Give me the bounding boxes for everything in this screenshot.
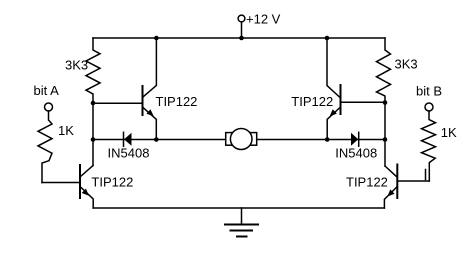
- stray segment near R4 lead: [425, 170, 427, 180]
- svg-text:TIP122: TIP122: [346, 175, 388, 190]
- ground: [225, 208, 258, 237]
- +12V terminal circle: [238, 15, 245, 22]
- svg-text:bit A: bit A: [34, 83, 60, 98]
- wire center left (rail to motor): [93, 139, 226, 141]
- wire left rail (R1 bottom to diode node): [92, 103, 94, 166]
- motor M1: [226, 129, 257, 150]
- node A dot (R1 / Q1 base): [91, 101, 96, 106]
- svg-text:TIP122: TIP122: [156, 94, 198, 109]
- transistor Q3 TIP122 lower-left: [80, 165, 93, 208]
- svg-text:IN5408: IN5408: [335, 145, 377, 160]
- transistor Q1 TIP122 upper-left: [93, 38, 156, 140]
- node dot right rail / D2 cathode wire: [383, 137, 388, 142]
- transistor Q2 TIP122 upper-right: [327, 38, 385, 140]
- svg-text:bit B: bit B: [416, 84, 442, 99]
- wire +12V stub: [241, 22, 243, 38]
- wire bit A to Q3 base: [42, 182, 80, 184]
- wire top rail: [93, 37, 385, 39]
- node dot Q2 emitter / D2 anode: [325, 137, 330, 142]
- svg-text:1K: 1K: [58, 123, 74, 138]
- wire bottom rail: [93, 207, 384, 209]
- svg-text:+12 V: +12 V: [246, 12, 281, 27]
- svg-text:3K3: 3K3: [395, 56, 418, 71]
- node dot Q2 collector on top rail: [325, 36, 330, 41]
- node B dot (R2 / Q2 base): [383, 100, 388, 105]
- svg-text:3K3: 3K3: [65, 58, 88, 73]
- resistor R1 3K3 left: [86, 38, 100, 103]
- svg-text:TIP122: TIP122: [291, 94, 333, 109]
- node dot +12V on top rail: [239, 36, 244, 41]
- transistor Q4 TIP122 lower-right: [384, 165, 397, 209]
- node dot left rail / D1 cathode wire: [91, 137, 96, 142]
- svg-text:1K: 1K: [441, 125, 457, 140]
- input terminal bit A circle: [45, 103, 53, 111]
- resistor R4 1K right: [422, 111, 436, 181]
- wire right rail (R2 bottom to diode node): [384, 103, 386, 167]
- input terminal bit B circle: [425, 103, 433, 111]
- diode D1 IN5408 left: [124, 132, 132, 146]
- node dot Q1 collector on top rail: [154, 36, 159, 41]
- node dot Q1 emitter / D1 anode: [154, 137, 159, 142]
- diode D2 IN5408 right: [351, 132, 359, 146]
- resistor R3 1K left: [38, 111, 52, 183]
- wire center right (motor to rail): [257, 139, 385, 141]
- svg-text:IN5408: IN5408: [108, 145, 150, 160]
- wire bit B to Q4 base: [397, 180, 429, 182]
- resistor R2 3K3 right: [377, 38, 391, 103]
- svg-text:TIP122: TIP122: [91, 175, 133, 190]
